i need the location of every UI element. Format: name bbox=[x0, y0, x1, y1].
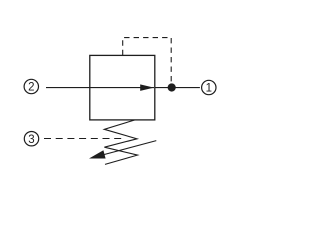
svg-text:2: 2 bbox=[28, 82, 34, 94]
svg-text:3: 3 bbox=[28, 134, 34, 146]
svg-text:1: 1 bbox=[206, 83, 212, 95]
